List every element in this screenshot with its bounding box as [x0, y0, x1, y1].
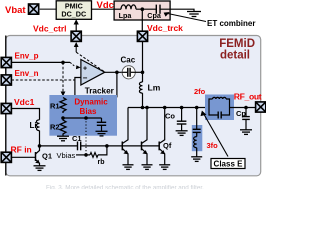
port RF out — [256, 102, 266, 112]
transistor Q1 — [35, 152, 37, 161]
wire bus to 3fo cap — [196, 108, 198, 130]
wire Vbat to PMIC — [39, 8, 57, 10]
dashed arrow Env_p to + input — [70, 62, 76, 66]
Class E arrow — [204, 114, 229, 157]
capacitor 3fo — [193, 128, 201, 130]
wire into Lpa — [114, 8, 121, 10]
capacitor Cp — [245, 108, 247, 117]
resistor R1 — [60, 98, 66, 114]
svg-text:Vdc_trck: Vdc_trck — [147, 23, 183, 33]
svg-text:Vdc_ctrl: Vdc_ctrl — [33, 24, 67, 34]
svg-text:R2: R2 — [50, 123, 60, 132]
op-amp U1 Tracker — [81, 60, 105, 86]
port Env_p — [1, 57, 11, 67]
wire Vdc_trck junction down to port — [141, 9, 143, 31]
3fo trap box — [192, 125, 203, 151]
svg-text:rb: rb — [98, 159, 105, 166]
svg-text:Vbat: Vbat — [5, 5, 26, 16]
base wire C1 to output transistors — [81, 145, 160, 147]
tank capacitor — [217, 112, 219, 119]
arrow Vdc_ctrl to PMIC — [75, 24, 77, 31]
svg-text:Cpa: Cpa — [147, 11, 162, 20]
svg-text:R1: R1 — [50, 102, 60, 111]
node rb junction — [105, 144, 109, 148]
svg-text:Vdc1: Vdc1 — [14, 97, 35, 107]
svg-text:2fo: 2fo — [194, 87, 206, 96]
wire Lpa to Cpa — [136, 8, 156, 10]
wire divider junction to cap — [63, 117, 102, 119]
bus wire collectors to output — [128, 107, 209, 109]
output transistor finger 2 — [141, 142, 143, 151]
tank loop — [209, 99, 230, 115]
resistor rb — [90, 153, 98, 158]
svg-text:Lm: Lm — [148, 83, 161, 93]
capacitor Co — [181, 108, 183, 122]
svg-text:Env_n: Env_n — [15, 69, 39, 78]
Class E label box — [211, 159, 245, 169]
output transistor finger 1 — [121, 142, 123, 151]
svg-text:Qf: Qf — [163, 141, 172, 150]
svg-text:RF_out: RF_out — [234, 91, 262, 101]
capacitor C1 — [77, 142, 79, 151]
Dynamic Bias box — [49, 95, 117, 136]
svg-text:Q1: Q1 — [42, 152, 52, 161]
svg-text:Fig. 3. More detailed schemati: Fig. 3. More detailed schematic of the a… — [46, 185, 204, 190]
wire op-amp output — [105, 71, 122, 73]
svg-text:Cac: Cac — [121, 55, 136, 64]
port Vdc1 — [1, 103, 11, 113]
wire Vdc_trck port down to tracker output node — [142, 41, 144, 72]
svg-text:Env_p: Env_p — [15, 52, 39, 61]
wire PMIC to ET combiner box — [92, 8, 115, 10]
ground Q1 — [34, 166, 46, 171]
wire Vbias to rb — [76, 154, 90, 156]
svg-text:+: + — [83, 65, 87, 72]
svg-text:ET combiner: ET combiner — [207, 19, 255, 28]
port Vdc_ctrl — [71, 31, 81, 41]
capacitor Cac — [122, 66, 135, 79]
inductor Li — [36, 120, 39, 131]
svg-text:Dynamic: Dynamic — [74, 98, 108, 107]
FEMiD detail box — [6, 36, 261, 176]
tank inductor — [213, 97, 227, 99]
ground (ET combiner output) — [187, 12, 201, 17]
ground 3fo — [191, 157, 202, 162]
svg-text:RF in: RF in — [11, 145, 32, 155]
wire Li to collector node — [39, 131, 41, 146]
svg-text:3fo: 3fo — [207, 141, 219, 150]
dashed wire Env_n — [11, 79, 75, 81]
svg-text:Vbias: Vbias — [57, 151, 76, 160]
port RF in — [1, 152, 11, 162]
wire collector node to C1 — [40, 145, 78, 147]
svg-text:Class E: Class E — [214, 160, 244, 169]
svg-text:Cp: Cp — [236, 109, 246, 118]
inductor Lpa — [121, 5, 136, 9]
port Env_n — [1, 75, 11, 85]
PMIC DC_DC box — [56, 1, 91, 20]
left port rail wire — [5, 36, 7, 176]
node Env_p junction — [61, 61, 65, 65]
2fo tank box — [205, 95, 234, 121]
inductor Lm — [142, 72, 144, 82]
svg-text:−: − — [83, 73, 88, 82]
svg-text:detail: detail — [220, 50, 250, 62]
svg-text:DC_DC: DC_DC — [61, 9, 86, 18]
inductor 3fo — [194, 137, 197, 148]
wire Cpa to ground — [160, 9, 194, 11]
ET combiner pointer — [167, 13, 207, 21]
svg-text:Co: Co — [165, 112, 175, 121]
node output junction — [115, 71, 119, 75]
dashed line Env_p junction down to R1 — [62, 62, 64, 92]
svg-text:Li: Li — [30, 121, 37, 130]
wire Vdc1 to Li — [11, 109, 39, 120]
output transistor Qf — [158, 142, 160, 151]
port Vbat — [29, 4, 39, 14]
bus wire tank to RF out — [230, 107, 256, 109]
resistor R2 — [60, 118, 66, 136]
wire rb to base node — [98, 146, 107, 155]
ground below R2 — [57, 136, 69, 141]
dash-dot control line divider to Vbias node — [85, 118, 87, 155]
feedback loop wire — [75, 72, 117, 97]
svg-text:C1: C1 — [72, 134, 82, 143]
wire RF in to Q1 base — [11, 156, 35, 158]
port Vdc_trck — [137, 31, 147, 41]
svg-text:FEMiD: FEMiD — [219, 38, 255, 50]
node junction Vdc_trck tap — [141, 7, 145, 11]
ET combiner box — [114, 1, 170, 20]
node Cac-Lm junction — [141, 71, 145, 75]
capacitor Cpa — [155, 5, 157, 14]
svg-text:Bias: Bias — [80, 107, 97, 116]
wire Env_p — [11, 61, 70, 63]
capacitor dynamic bias — [101, 118, 103, 122]
dashed control line Tracker to Vdc_ctrl port — [75, 47, 77, 52]
svg-text:Tracker: Tracker — [85, 87, 115, 96]
svg-text:Lpa: Lpa — [119, 11, 133, 20]
node collector junction — [38, 144, 42, 148]
